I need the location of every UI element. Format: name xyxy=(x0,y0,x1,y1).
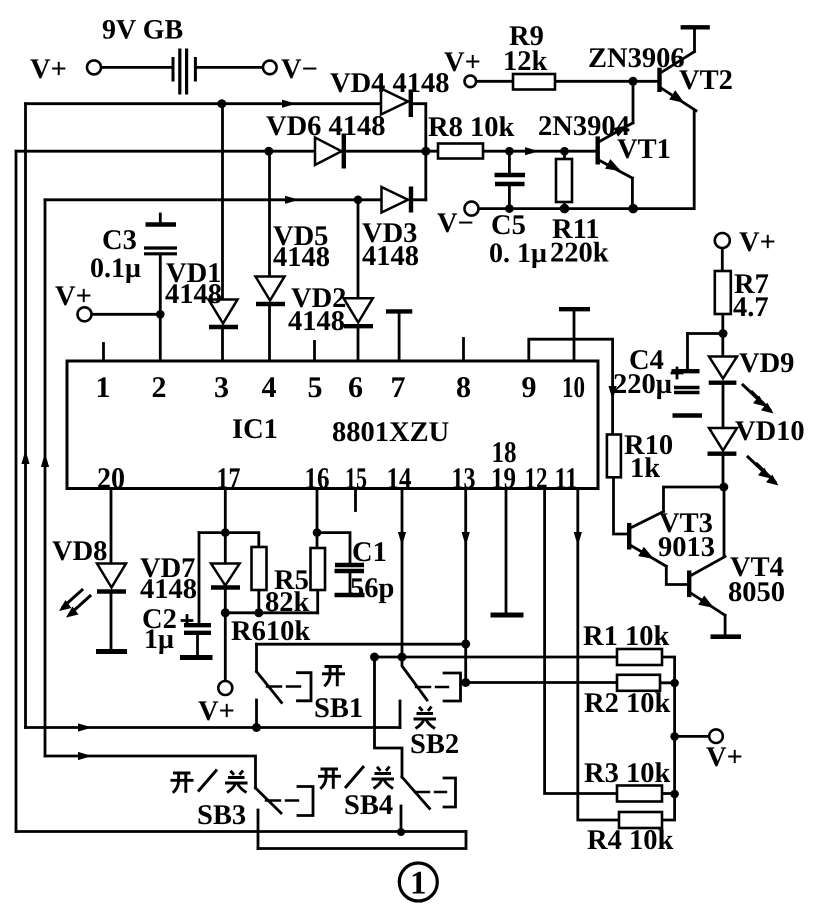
svg-text:VD8: VD8 xyxy=(52,536,107,567)
svg-text:5: 5 xyxy=(308,371,323,404)
svg-text:IC1: IC1 xyxy=(232,414,278,445)
svg-text:11: 11 xyxy=(555,462,578,495)
svg-text:SB3: SB3 xyxy=(197,800,246,831)
svg-text:V+: V+ xyxy=(198,696,235,727)
svg-text:R1 10k: R1 10k xyxy=(583,621,669,652)
svg-text:R3 10k: R3 10k xyxy=(584,758,670,789)
svg-text:9013: 9013 xyxy=(658,532,715,563)
svg-text:4148: 4148 xyxy=(140,574,197,605)
svg-text:V+: V+ xyxy=(55,281,92,312)
svg-text:VD6 4148: VD6 4148 xyxy=(266,111,386,142)
svg-text:12: 12 xyxy=(525,462,548,495)
svg-text:1: 1 xyxy=(410,866,427,902)
svg-text:ZN3906: ZN3906 xyxy=(588,43,685,74)
svg-text:R8 10k: R8 10k xyxy=(428,112,514,143)
svg-text:C3: C3 xyxy=(102,225,137,256)
svg-text:VD4 4148: VD4 4148 xyxy=(330,68,450,99)
svg-text:8050: 8050 xyxy=(728,577,785,608)
svg-text:VD9: VD9 xyxy=(739,348,794,379)
svg-text:V+: V+ xyxy=(739,227,776,258)
svg-text:10: 10 xyxy=(562,371,585,404)
svg-text:4148: 4148 xyxy=(362,241,419,272)
svg-text:V−: V− xyxy=(437,208,474,239)
svg-text:0. 1μ: 0. 1μ xyxy=(489,238,547,269)
svg-text:17: 17 xyxy=(217,462,241,495)
svg-text:V+: V+ xyxy=(30,54,67,85)
svg-text:4148: 4148 xyxy=(288,306,345,337)
svg-text:VT2: VT2 xyxy=(679,65,733,96)
svg-text:1: 1 xyxy=(96,371,111,404)
svg-text:4: 4 xyxy=(262,371,277,404)
svg-text:9V GB: 9V GB xyxy=(102,15,183,46)
svg-text:C5: C5 xyxy=(491,210,526,241)
svg-text:R610k: R610k xyxy=(231,616,310,647)
svg-text:15: 15 xyxy=(345,462,367,495)
svg-text:1k: 1k xyxy=(630,453,660,484)
svg-text:R2 10k: R2 10k xyxy=(584,688,670,719)
svg-text:SB4: SB4 xyxy=(344,790,393,821)
svg-text:V−: V− xyxy=(281,54,318,85)
svg-text:4148: 4148 xyxy=(165,279,222,310)
svg-text:220k: 220k xyxy=(550,238,609,269)
svg-text:SB2: SB2 xyxy=(410,729,459,760)
svg-text:R4 10k: R4 10k xyxy=(587,825,673,856)
svg-text:13: 13 xyxy=(452,462,476,495)
svg-text:VD10: VD10 xyxy=(735,416,805,447)
svg-text:6: 6 xyxy=(348,371,363,404)
svg-text:1μ: 1μ xyxy=(144,624,174,655)
svg-text:16: 16 xyxy=(305,462,330,495)
svg-text:7: 7 xyxy=(391,371,406,404)
svg-text:8801XZU: 8801XZU xyxy=(332,417,449,448)
svg-text:2: 2 xyxy=(152,371,167,404)
svg-text:V+: V+ xyxy=(706,742,743,773)
svg-text:SB1: SB1 xyxy=(314,693,363,724)
svg-text:0.1μ: 0.1μ xyxy=(90,253,141,284)
svg-text:8: 8 xyxy=(456,371,471,404)
svg-text:12k: 12k xyxy=(503,46,548,77)
svg-text:4148: 4148 xyxy=(273,242,330,273)
svg-text:3: 3 xyxy=(214,371,229,404)
svg-text:14: 14 xyxy=(387,462,412,495)
svg-text:4.7: 4.7 xyxy=(733,292,769,323)
svg-text:V+: V+ xyxy=(444,47,481,78)
svg-text:C1: C1 xyxy=(352,537,387,568)
svg-text:56p: 56p xyxy=(350,573,394,604)
svg-text:VT1: VT1 xyxy=(617,134,671,165)
svg-text:220μ: 220μ xyxy=(613,369,672,400)
svg-text:82k: 82k xyxy=(265,587,310,618)
svg-text:20: 20 xyxy=(97,462,125,495)
svg-text:9: 9 xyxy=(522,371,537,404)
svg-text:19: 19 xyxy=(491,462,516,495)
